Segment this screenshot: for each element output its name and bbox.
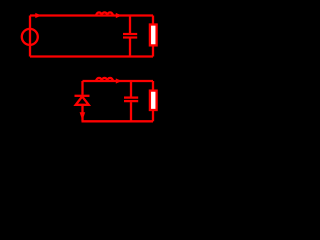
wire: diode branch upper lead bbox=[81, 81, 83, 95]
current direction arrow (downwards, above bottom-left corner) bbox=[80, 112, 86, 120]
wire: resistor branch lower lead bbox=[152, 45, 154, 56]
capacitor C2 top plate bbox=[124, 96, 138, 98]
wire: bottom conductor of circuit 1 bbox=[30, 55, 153, 57]
current direction arrow on top wire (left) bbox=[35, 13, 41, 18]
wire: resistor branch lower lead (circuit 2) bbox=[152, 110, 154, 121]
diode D1 cathode bar bbox=[75, 95, 90, 97]
wire: bottom conductor of circuit 2 bbox=[82, 120, 154, 122]
wire: top conductor of circuit 1 bbox=[30, 14, 153, 16]
inductor L2 bbox=[96, 78, 113, 81]
current direction arrow on top wire of circuit 2 bbox=[116, 78, 122, 83]
wire: diode branch lower lead bbox=[81, 105, 83, 113]
wire: diode branch joining bottom conductor bbox=[81, 117, 83, 121]
wire: top conductor of circuit 2 bbox=[83, 80, 154, 82]
current source I1 (circle) bbox=[22, 29, 38, 45]
capacitor C2 bottom plate bbox=[124, 100, 138, 102]
resistor R1 (load, white body) bbox=[150, 25, 157, 46]
inductor L1 bbox=[96, 12, 113, 15]
diode D1 triangle (pointing up) bbox=[76, 97, 89, 105]
wire: capacitor branch upper lead bbox=[129, 16, 131, 34]
wire: capacitor branch lower lead bbox=[129, 39, 131, 57]
capacitor C1 top plate bbox=[123, 33, 137, 35]
wire: resistor branch upper lead bbox=[152, 16, 154, 25]
wire: capacitor branch upper lead (circuit 2) bbox=[130, 81, 132, 97]
capacitor C1 bottom plate bbox=[123, 36, 137, 38]
current direction arrow on top wire (right of L1) bbox=[116, 13, 122, 18]
wire: resistor branch upper lead (circuit 2) bbox=[152, 81, 154, 91]
resistor R2 (load, white body) bbox=[150, 91, 157, 110]
wire: capacitor branch lower lead (circuit 2) bbox=[130, 102, 132, 121]
wire: left branch of circuit 1 bbox=[29, 16, 31, 57]
